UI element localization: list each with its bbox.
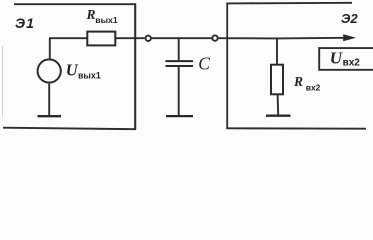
source U out1 circle (38, 59, 61, 82)
svg-text:R: R (86, 7, 96, 22)
svg-text:U: U (66, 60, 79, 79)
resistor Rin2 bottom lead (277, 94, 280, 115)
svg-text:Э1: Э1 (15, 15, 35, 31)
svg-text:вх2: вх2 (306, 83, 321, 93)
label Uin2 (330, 49, 361, 69)
wire source top (49, 38, 51, 58)
label Uout1 (66, 60, 101, 80)
U in2 measurement box (318, 47, 373, 70)
box E2 (stage 2 enclosure) (226, 3, 366, 129)
wire node2 into box E2 (218, 37, 277, 39)
label Rin2 (293, 74, 321, 92)
capacitor C top lead (178, 38, 180, 60)
resistor bottom terminal bar (266, 115, 291, 117)
wire resistor to node 1 (115, 37, 144, 39)
node terminal 2 (212, 35, 217, 40)
box E1 (stage 1 enclosure) (3, 3, 136, 129)
svg-text:U: U (330, 49, 343, 68)
wire top horizontal to resistor (49, 37, 88, 39)
source bottom lead (48, 84, 50, 116)
svg-text:Э2: Э2 (341, 11, 358, 26)
svg-text:вых1: вых1 (78, 70, 101, 80)
svg-text:вх2: вх2 (343, 58, 361, 69)
capacitor C bottom plate (166, 65, 194, 67)
svg-text:R: R (293, 74, 303, 89)
wire with arrow to the right (277, 37, 345, 40)
wire node1 to node2 (151, 37, 212, 39)
capacitor C top plate (166, 60, 194, 62)
svg-text:вых1: вых1 (95, 15, 118, 25)
capacitor bottom terminal bar (166, 115, 193, 117)
capacitor bottom lead (178, 67, 180, 116)
node terminal 1 (146, 36, 151, 41)
resistor Rin2 top lead (276, 38, 278, 64)
arrowhead (343, 34, 356, 41)
svg-text:C: C (198, 54, 210, 74)
resistor Rout1 body (87, 32, 115, 46)
source bottom terminal bar (38, 115, 62, 117)
label Rout1 (86, 7, 118, 25)
resistor Rin2 body (271, 65, 283, 95)
